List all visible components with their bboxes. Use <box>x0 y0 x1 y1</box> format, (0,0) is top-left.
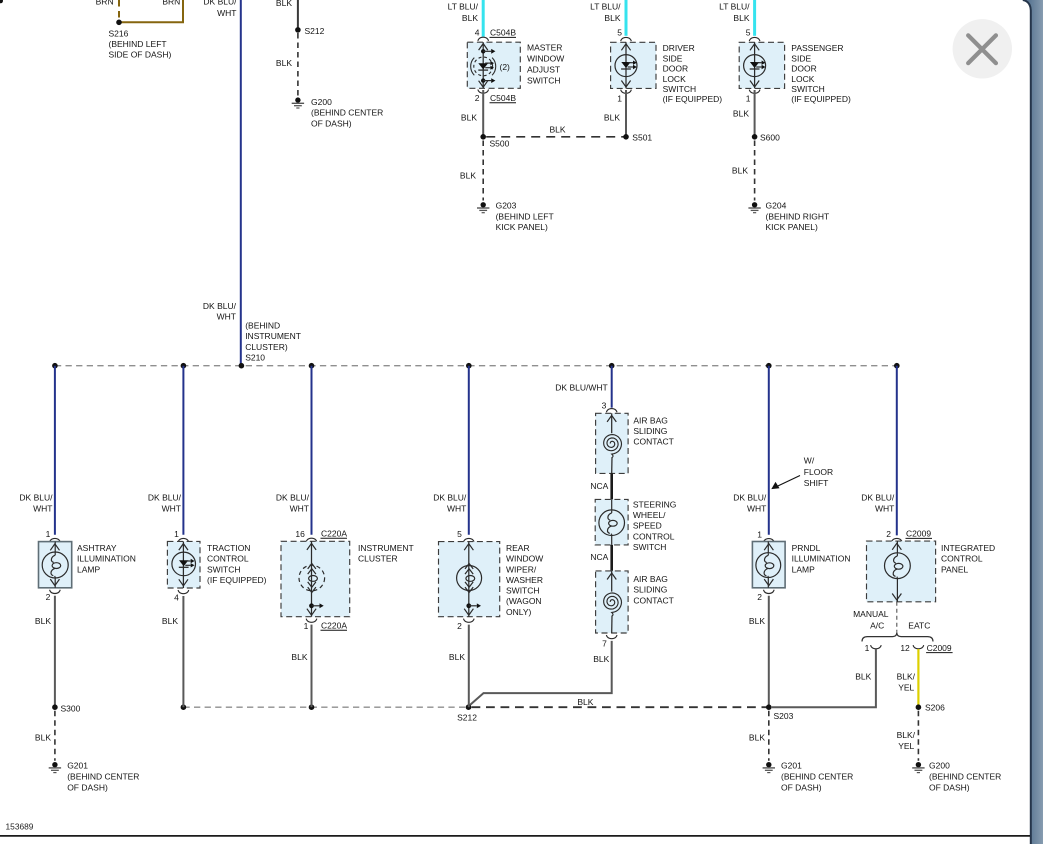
svg-text:S203: S203 <box>774 711 794 721</box>
svg-text:S300: S300 <box>61 703 81 713</box>
svg-text:ONLY): ONLY) <box>506 607 532 617</box>
svg-text:G203: G203 <box>496 201 517 211</box>
svg-text:DOOR: DOOR <box>791 64 817 74</box>
splice S206 <box>916 704 922 710</box>
branch bracket <box>862 632 933 641</box>
svg-text:WHT: WHT <box>162 504 181 514</box>
svg-text:DK BLU/: DK BLU/ <box>733 493 767 503</box>
svg-text:SLIDING: SLIDING <box>633 585 667 595</box>
bus junction dot x=611.7 <box>609 363 615 369</box>
svg-text:WHT: WHT <box>747 504 766 514</box>
svg-text:DK BLU/: DK BLU/ <box>19 493 53 503</box>
ashtray illumination lamp box <box>39 542 72 588</box>
svg-text:(BEHIND CENTER: (BEHIND CENTER <box>781 772 853 782</box>
svg-text:INSTRUMENT: INSTRUMENT <box>358 543 414 553</box>
pin 1 passenger switch <box>749 90 760 94</box>
svg-text:G200: G200 <box>311 97 332 107</box>
svg-text:OF DASH): OF DASH) <box>67 782 108 792</box>
svg-text:G200: G200 <box>929 761 950 771</box>
svg-text:AIR BAG: AIR BAG <box>633 574 667 584</box>
wire DK BLU/WHT drop to instrument cluster <box>311 366 313 535</box>
svg-text:W/: W/ <box>804 456 815 466</box>
svg-text:WHT: WHT <box>217 8 236 18</box>
splice bus S210 dashed <box>55 365 897 367</box>
svg-text:FLOOR: FLOOR <box>804 467 833 477</box>
svg-text:YEL: YEL <box>898 683 914 693</box>
pin 2 connector C504B <box>478 90 489 94</box>
svg-text:2: 2 <box>46 592 51 602</box>
svg-text:BLK/: BLK/ <box>897 671 916 681</box>
svg-text:16: 16 <box>295 529 305 539</box>
svg-text:WHT: WHT <box>33 504 52 514</box>
svg-text:INTEGRATED: INTEGRATED <box>941 543 995 553</box>
svg-text:1: 1 <box>746 94 751 104</box>
svg-text:DRIVER: DRIVER <box>663 43 695 53</box>
svg-text:DK BLU/: DK BLU/ <box>276 493 310 503</box>
svg-text:12: 12 <box>900 643 910 653</box>
wire BLK dashed S212 to S203 <box>472 706 769 708</box>
svg-text:1: 1 <box>304 621 309 631</box>
wire NCA between air bag contact and steering switch <box>610 473 613 499</box>
svg-text:DK BLU/: DK BLU/ <box>861 493 895 503</box>
svg-text:1: 1 <box>865 643 870 653</box>
svg-text:2: 2 <box>757 592 762 602</box>
svg-text:SWITCH: SWITCH <box>527 75 561 85</box>
svg-text:BRN: BRN <box>96 0 114 7</box>
svg-text:NCA: NCA <box>590 552 608 562</box>
svg-text:A/C: A/C <box>870 621 884 631</box>
svg-text:7: 7 <box>602 638 607 648</box>
svg-text:1: 1 <box>757 529 762 539</box>
svg-text:SHIFT: SHIFT <box>804 478 829 488</box>
ground G200 behind center of dash (right) <box>916 762 921 767</box>
svg-text:DOOR: DOOR <box>663 64 689 74</box>
svg-text:C2009: C2009 <box>927 643 952 653</box>
splice S216 <box>116 20 122 26</box>
wire DK BLU/WHT drop to rear window wiper switch <box>468 366 470 535</box>
svg-text:AIR BAG: AIR BAG <box>633 415 667 425</box>
svg-text:SWITCH: SWITCH <box>207 564 241 574</box>
svg-text:PANEL: PANEL <box>941 564 969 574</box>
svg-text:OF DASH): OF DASH) <box>311 118 352 128</box>
splice S203 <box>766 704 772 710</box>
svg-text:BLK: BLK <box>35 732 51 742</box>
ground G201 behind center of dash (left) <box>52 762 57 767</box>
svg-text:C504B: C504B <box>490 93 516 103</box>
pin 2 ashtray lamp <box>50 590 61 594</box>
svg-text:(BEHIND CENTER: (BEHIND CENTER <box>67 772 139 782</box>
svg-text:DK BLU/: DK BLU/ <box>203 0 237 7</box>
wire DK BLU/WHT drop to air bag sliding contact <box>611 366 613 408</box>
svg-text:BLK: BLK <box>460 171 476 181</box>
svg-text:REAR: REAR <box>506 543 530 553</box>
svg-text:WINDOW: WINDOW <box>527 54 564 64</box>
air bag sliding contact box (upper) <box>596 413 629 473</box>
svg-text:LT BLU/: LT BLU/ <box>719 2 750 12</box>
svg-text:S206: S206 <box>925 703 945 713</box>
svg-text:WHT: WHT <box>447 504 466 514</box>
svg-text:BLK: BLK <box>749 616 765 626</box>
ground G203 behind left kick panel <box>481 202 486 207</box>
svg-text:1: 1 <box>174 529 179 539</box>
svg-text:DK BLU/: DK BLU/ <box>433 493 467 503</box>
svg-text:NCA: NCA <box>590 481 608 491</box>
svg-text:C2009: C2009 <box>906 529 931 539</box>
svg-text:SIDE: SIDE <box>791 53 811 63</box>
diagram bottom border <box>0 835 1030 837</box>
svg-text:BLK: BLK <box>276 0 292 8</box>
svg-text:S210: S210 <box>245 353 265 363</box>
svg-text:LAMP: LAMP <box>792 564 815 574</box>
svg-text:SWITCH: SWITCH <box>506 586 540 596</box>
svg-text:(BEHIND LEFT: (BEHIND LEFT <box>496 211 554 221</box>
traction control switch box <box>167 541 200 588</box>
svg-text:STEERING: STEERING <box>633 499 676 509</box>
bus junction dot x=54.9 <box>52 363 58 369</box>
svg-text:G201: G201 <box>781 761 802 771</box>
bus junction dot x=311.5 <box>309 363 315 369</box>
svg-text:PASSENGER: PASSENGER <box>791 43 843 53</box>
svg-text:ASHTRAY: ASHTRAY <box>77 543 117 553</box>
svg-text:CONTROL: CONTROL <box>207 554 249 564</box>
wire NCA between steering switch and lower air bag contact <box>610 545 613 571</box>
svg-text:(BEHIND: (BEHIND <box>245 320 280 330</box>
svg-text:153689: 153689 <box>6 821 34 831</box>
svg-text:BLK: BLK <box>604 113 620 123</box>
svg-text:PRNDL: PRNDL <box>792 543 821 553</box>
driver side door lock switch box <box>611 42 656 88</box>
svg-text:3: 3 <box>602 400 607 410</box>
svg-text:LOCK: LOCK <box>791 74 814 84</box>
svg-text:OF DASH): OF DASH) <box>929 782 970 792</box>
svg-text:EATC: EATC <box>908 621 930 631</box>
PRNDL illumination lamp box <box>752 542 785 588</box>
ground G204 behind right kick panel <box>752 202 757 207</box>
svg-text:KICK PANEL): KICK PANEL) <box>766 222 818 232</box>
svg-text:(BEHIND CENTER: (BEHIND CENTER <box>929 772 1001 782</box>
svg-text:5: 5 <box>746 28 751 38</box>
svg-text:S216: S216 <box>109 28 129 38</box>
svg-text:S500: S500 <box>490 139 510 149</box>
bus junction dot x=768.8 <box>766 363 772 369</box>
close button <box>953 19 1012 78</box>
ground G200 behind center of dash <box>295 97 300 102</box>
splice S300 <box>52 704 58 710</box>
svg-text:5: 5 <box>617 28 622 38</box>
bottom splice bus dashed light <box>183 706 468 708</box>
svg-text:2: 2 <box>886 529 891 539</box>
rear window wiper/washer switch box <box>439 542 500 617</box>
svg-text:ILLUMINATION: ILLUMINATION <box>77 554 136 564</box>
svg-text:(WAGON: (WAGON <box>506 596 542 606</box>
svg-text:(BEHIND CENTER: (BEHIND CENTER <box>311 108 383 118</box>
svg-text:G204: G204 <box>766 201 787 211</box>
bottom bus dot traction <box>181 704 187 710</box>
svg-text:2: 2 <box>475 93 480 103</box>
svg-text:BLK: BLK <box>276 58 292 68</box>
pin 4 traction control switch <box>178 590 189 594</box>
svg-text:INSTRUMENT: INSTRUMENT <box>245 331 301 341</box>
pin 2 rear window wiper switch <box>464 619 475 623</box>
svg-text:WIPER/: WIPER/ <box>506 564 537 574</box>
bus junction dot x=183.4 <box>181 363 187 369</box>
svg-text:SLIDING: SLIDING <box>633 426 667 436</box>
svg-text:CONTROL: CONTROL <box>941 554 983 564</box>
wire DK BLU/WHT drop to integrated control panel <box>896 366 898 536</box>
svg-text:S212: S212 <box>457 713 477 723</box>
svg-text:BLK: BLK <box>550 125 566 135</box>
svg-text:4: 4 <box>475 28 480 38</box>
svg-text:BLK: BLK <box>604 13 620 23</box>
pin 1 driver switch <box>621 90 632 94</box>
svg-text:ADJUST: ADJUST <box>527 64 560 74</box>
ground G201 behind center of dash (right) <box>766 762 771 767</box>
svg-text:CLUSTER): CLUSTER) <box>245 342 288 352</box>
bus junction dot x=241.4 <box>239 363 245 369</box>
svg-text:4: 4 <box>174 592 179 602</box>
svg-text:BLK: BLK <box>855 672 871 682</box>
svg-text:SPEED: SPEED <box>633 521 662 531</box>
splice S600 <box>752 134 758 140</box>
svg-text:BRN: BRN <box>162 0 180 7</box>
svg-text:BLK: BLK <box>291 652 307 662</box>
svg-text:LT BLU/: LT BLU/ <box>448 2 479 12</box>
svg-text:MANUAL: MANUAL <box>853 609 889 619</box>
svg-text:CONTROL: CONTROL <box>633 531 675 541</box>
splice S212 bottom <box>466 704 472 710</box>
pin 2 PRNDL lamp <box>764 590 775 594</box>
svg-text:BLK: BLK <box>733 109 749 119</box>
svg-text:SWITCH: SWITCH <box>791 84 825 94</box>
bus junction dot x=896.8 <box>894 363 900 369</box>
svg-text:TRACTION: TRACTION <box>207 543 250 553</box>
clipped junction dot top-left corner <box>0 0 3 3</box>
splice S500 <box>480 134 486 140</box>
bottom bus dot cluster <box>309 704 315 710</box>
svg-text:BLK: BLK <box>593 654 609 664</box>
svg-text:(IF EQUIPPED): (IF EQUIPPED) <box>207 575 267 585</box>
wire DK BLU/WHT drop to ashtray lamp <box>54 366 56 535</box>
svg-text:MASTER: MASTER <box>527 43 562 53</box>
svg-text:S501: S501 <box>632 133 652 143</box>
svg-text:1: 1 <box>617 94 622 104</box>
bus junction dot x=468.8 <box>466 363 472 369</box>
svg-text:BLK: BLK <box>733 13 749 23</box>
svg-text:WHT: WHT <box>217 312 236 322</box>
svg-text:(2): (2) <box>500 62 511 72</box>
air bag sliding contact box (lower) <box>596 571 629 633</box>
integrated control panel box <box>867 541 936 602</box>
svg-text:BLK: BLK <box>35 616 51 626</box>
pin 1 connector C220A <box>306 619 317 623</box>
svg-text:CONTACT: CONTACT <box>633 595 673 605</box>
svg-text:BLK/: BLK/ <box>897 730 916 740</box>
svg-text:CONTACT: CONTACT <box>633 437 673 447</box>
svg-text:WHT: WHT <box>875 504 894 514</box>
svg-text:S212: S212 <box>305 26 325 36</box>
svg-text:LAMP: LAMP <box>77 564 100 574</box>
master window adjust switch U-box <box>467 42 520 88</box>
passenger side door lock switch box <box>739 42 784 88</box>
svg-text:SWITCH: SWITCH <box>663 84 697 94</box>
svg-text:BLK: BLK <box>449 652 465 662</box>
svg-text:BLK: BLK <box>461 113 477 123</box>
svg-text:SWITCH: SWITCH <box>633 542 667 552</box>
svg-text:WINDOW: WINDOW <box>506 554 543 564</box>
dashed stub below integrated control panel <box>896 602 898 632</box>
pin 7 air bag sliding contact <box>606 635 617 639</box>
svg-text:S600: S600 <box>760 133 780 143</box>
svg-text:G201: G201 <box>67 761 88 771</box>
svg-text:DK BLU/: DK BLU/ <box>148 493 182 503</box>
svg-text:BLK: BLK <box>462 13 478 23</box>
svg-text:KICK PANEL): KICK PANEL) <box>496 222 548 232</box>
wire DK BLU/WHT drop to PRNDL lamp <box>768 366 770 535</box>
svg-text:C220A: C220A <box>321 620 347 630</box>
svg-text:SIDE OF DASH): SIDE OF DASH) <box>109 49 172 59</box>
svg-text:2: 2 <box>457 621 462 631</box>
svg-text:(BEHIND RIGHT: (BEHIND RIGHT <box>766 211 830 221</box>
svg-text:OF DASH): OF DASH) <box>781 782 822 792</box>
svg-text:BLK: BLK <box>732 166 748 176</box>
svg-text:WHT: WHT <box>290 504 309 514</box>
svg-text:YEL: YEL <box>898 741 914 751</box>
svg-text:CLUSTER: CLUSTER <box>358 554 398 564</box>
svg-text:LOCK: LOCK <box>663 74 686 84</box>
instrument cluster box <box>281 541 350 616</box>
svg-text:DK BLU/: DK BLU/ <box>203 301 237 311</box>
splice S212 top <box>295 27 301 33</box>
svg-text:BLK: BLK <box>749 732 765 742</box>
svg-text:(BEHIND LEFT: (BEHIND LEFT <box>109 39 167 49</box>
steering wheel/speed control switch box <box>595 499 628 545</box>
svg-text:C504B: C504B <box>490 28 516 38</box>
svg-text:DK BLU/WHT: DK BLU/WHT <box>555 382 607 392</box>
svg-text:BLK: BLK <box>162 616 178 626</box>
wire DK BLU/WHT drop to traction control switch <box>182 366 184 535</box>
svg-text:LT BLU/: LT BLU/ <box>590 2 621 12</box>
svg-text:ILLUMINATION: ILLUMINATION <box>792 554 851 564</box>
svg-text:1: 1 <box>46 529 51 539</box>
svg-text:BLK: BLK <box>577 697 593 707</box>
svg-text:(IF EQUIPPED): (IF EQUIPPED) <box>791 94 851 104</box>
svg-text:C220A: C220A <box>321 528 347 538</box>
splice S501 <box>623 134 629 140</box>
svg-text:WASHER: WASHER <box>506 575 543 585</box>
svg-text:(IF EQUIPPED): (IF EQUIPPED) <box>663 94 723 104</box>
svg-text:SIDE: SIDE <box>663 53 683 63</box>
svg-text:WHEEL/: WHEEL/ <box>633 510 666 520</box>
svg-text:5: 5 <box>457 529 462 539</box>
panel right border <box>1023 0 1031 844</box>
